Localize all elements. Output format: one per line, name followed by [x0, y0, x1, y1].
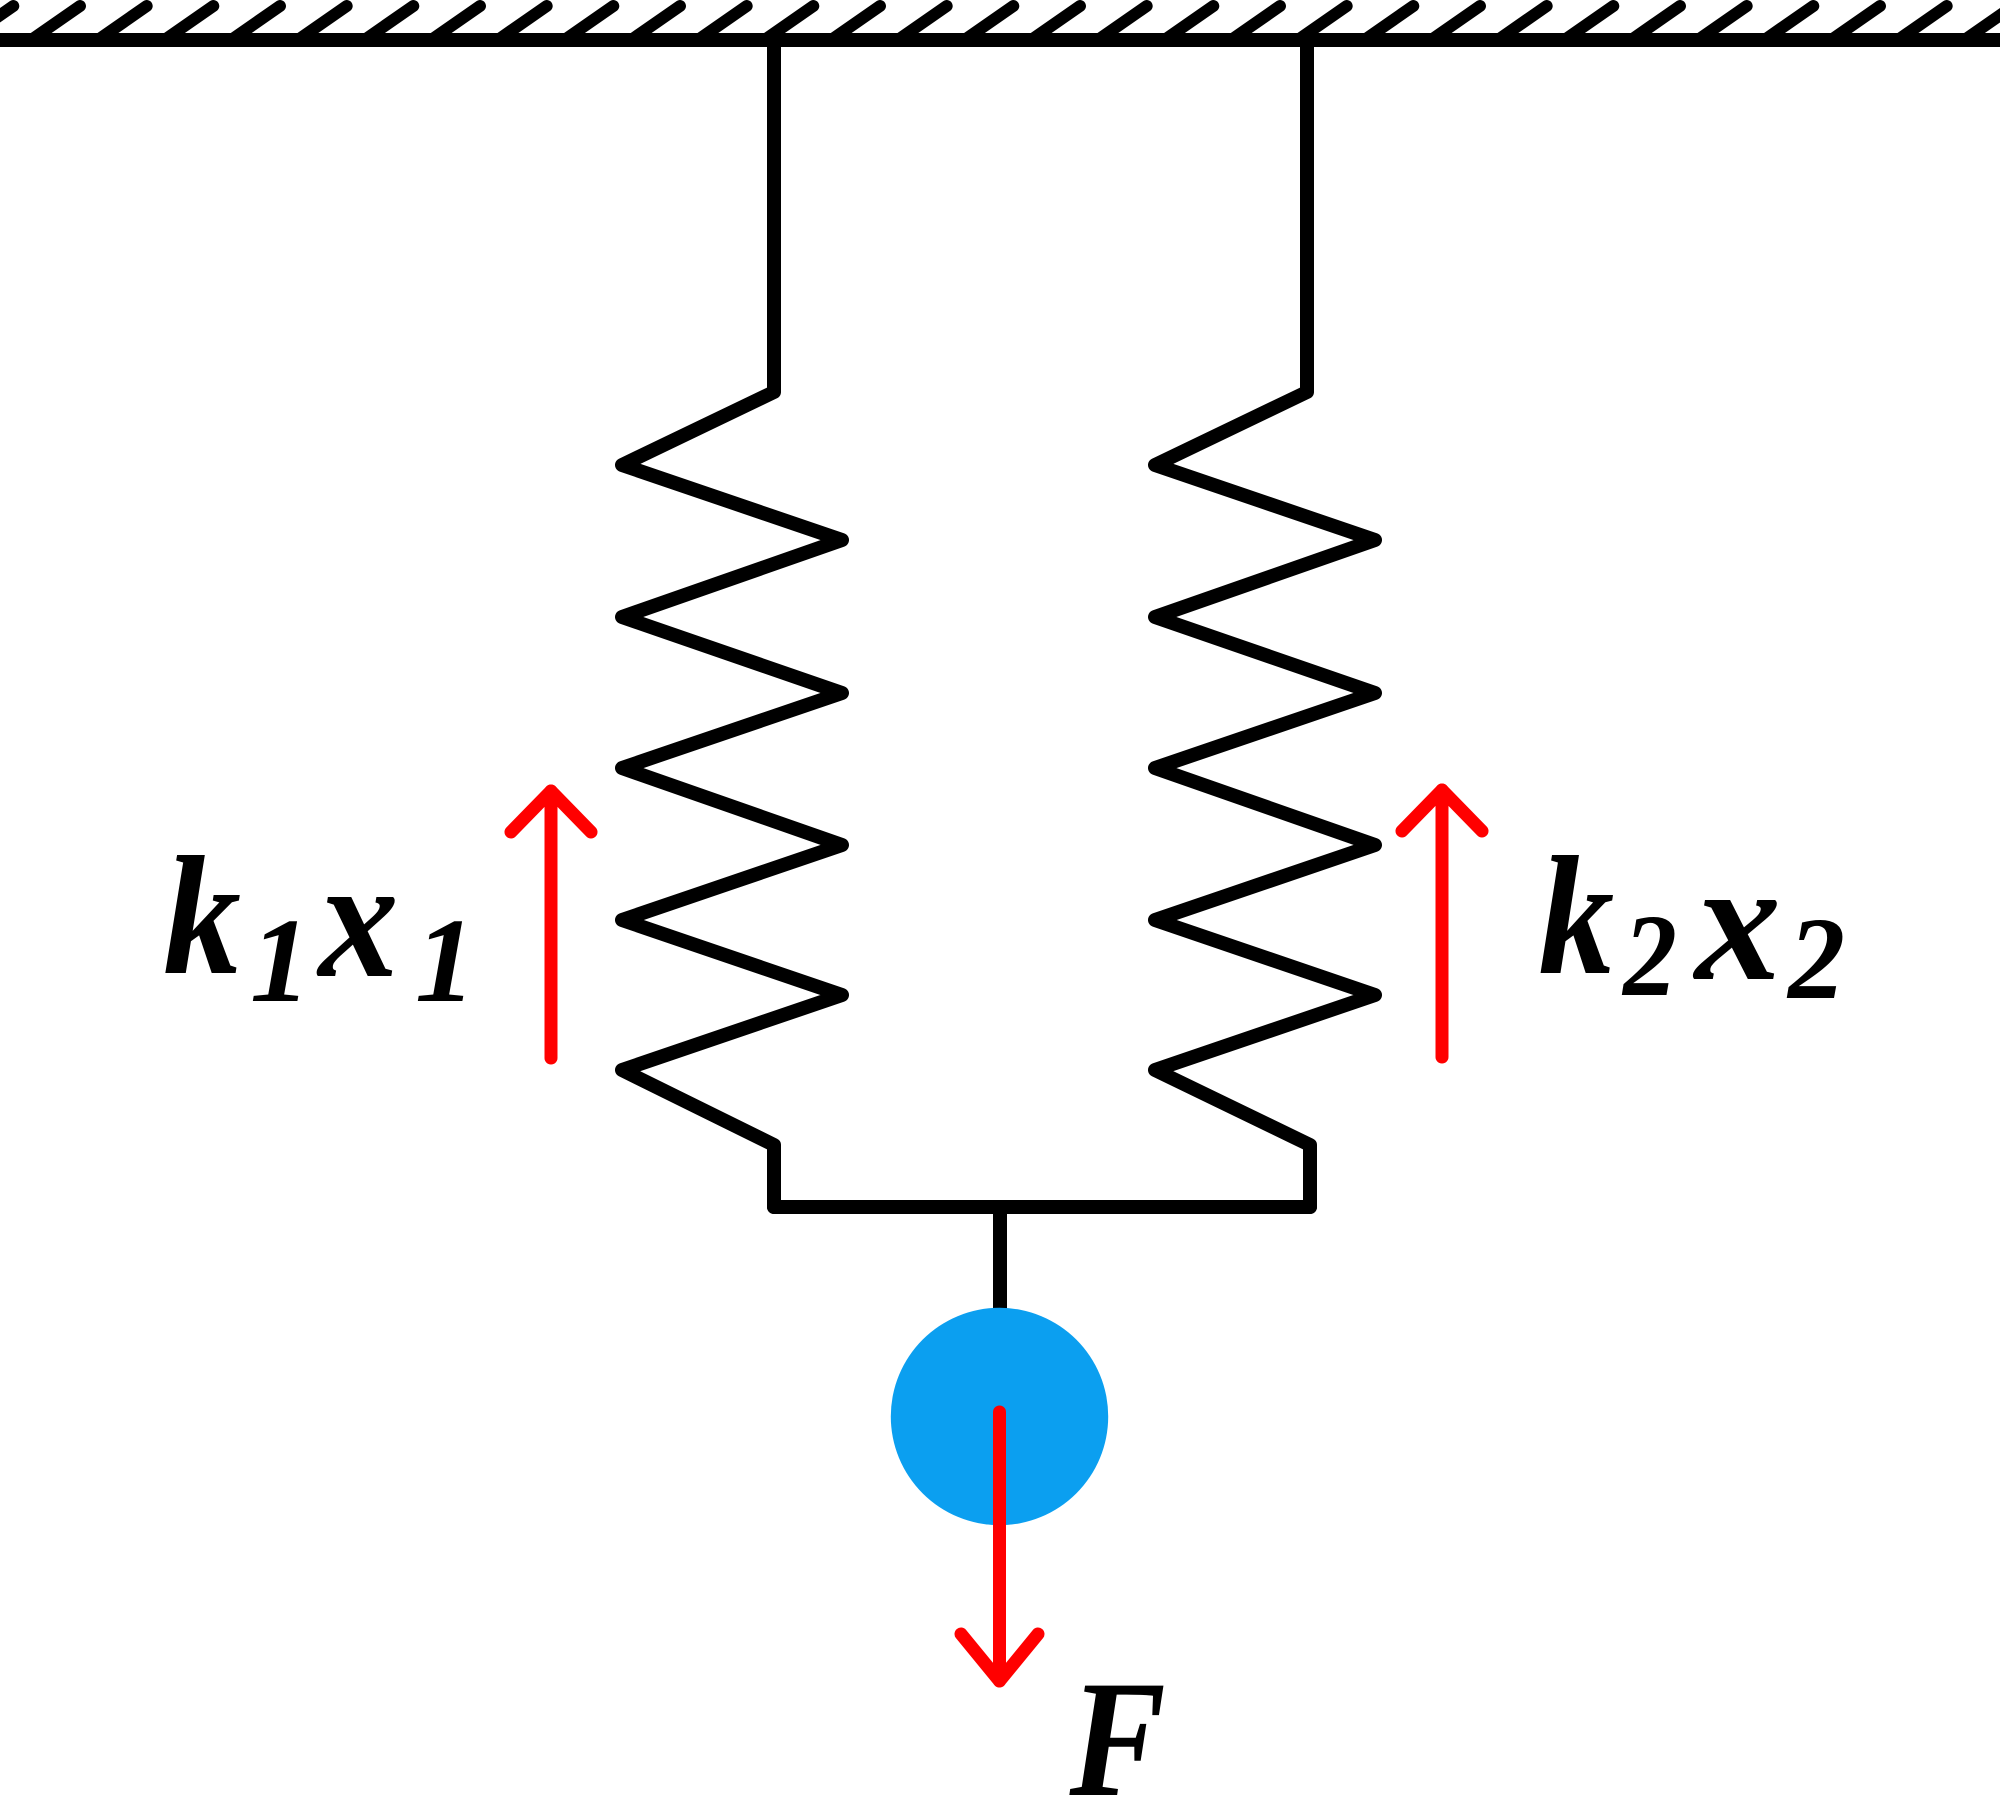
- svg-text:k: k: [1539, 822, 1615, 1010]
- svg-text:F: F: [1069, 1646, 1166, 1796]
- svg-text:x: x: [316, 823, 399, 1014]
- svg-text:2: 2: [1786, 894, 1845, 1024]
- svg-text:1: 1: [250, 894, 311, 1028]
- svg-text:1: 1: [415, 894, 476, 1028]
- svg-text:k: k: [163, 823, 241, 1011]
- svg-text:2: 2: [1621, 891, 1677, 1022]
- svg-text:x: x: [1692, 827, 1781, 1017]
